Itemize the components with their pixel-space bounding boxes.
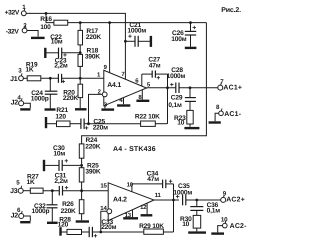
pin 13 ground [123, 210, 138, 219]
svg-text:12: 12 [140, 204, 147, 211]
svg-text:10: 10 [221, 216, 228, 223]
terminal 10 AC2- [221, 216, 247, 230]
svg-text:1000p: 1000p [31, 95, 49, 102]
node pin15 [80, 189, 83, 192]
node rail R17 [79, 21, 82, 24]
svg-text:AC1+: AC1+ [223, 84, 242, 91]
ground J2b [20, 221, 30, 223]
ground R23 [184, 127, 199, 129]
svg-text:Рис.2.: Рис.2. [221, 7, 241, 14]
node C24 tap [49, 77, 52, 80]
svg-text:2,2м: 2,2м [54, 63, 68, 70]
terminal 8 AC1- [216, 104, 242, 118]
ground J2 [20, 108, 30, 110]
terminal 9 AC2+ [221, 191, 245, 204]
node output C34 [172, 199, 175, 202]
pin 4 ground [117, 97, 130, 106]
resistor R21 [55, 107, 81, 127]
node zobel ch1 [189, 86, 192, 89]
label A4 STK436 [113, 146, 156, 153]
resistor R19 [25, 62, 40, 81]
wire filtered rail [68, 22, 207, 24]
resistor R24 [79, 137, 100, 168]
wire pin14 to fb node [101, 211, 107, 232]
svg-text:390K: 390K [85, 169, 100, 176]
node zobel ch2 [195, 199, 198, 202]
pin 9 riser [104, 23, 110, 73]
capacitor C26 [171, 23, 196, 47]
ground bar R28 [61, 227, 68, 236]
svg-text:220K: 220K [85, 143, 100, 150]
pin 8 ground [136, 90, 149, 101]
op-amp A4.2 [108, 183, 154, 221]
ground R20 [75, 108, 87, 110]
resistor R23 [174, 101, 193, 127]
capacitor C21 [125, 22, 150, 47]
svg-text:10: 10 [182, 221, 189, 228]
wire J3 [23, 190, 30, 192]
svg-text:47м: 47м [149, 62, 161, 69]
wire +32V [26, 12, 46, 14]
wire R16 left [46, 13, 54, 22]
terminal 6 J2b [11, 207, 24, 219]
wire rail down and across [82, 23, 207, 144]
resistor R18 [78, 47, 100, 78]
svg-text:1000p: 1000p [32, 208, 50, 215]
ground bar R21 [46, 117, 57, 128]
ground R26 [76, 220, 89, 222]
svg-text:+32V: +32V [5, 9, 20, 16]
terminal 4 J2 [11, 94, 24, 106]
wire C31 to pin15 [63, 190, 109, 192]
wire R29 riser [173, 200, 175, 232]
svg-text:13: 13 [125, 212, 132, 219]
svg-text:J2: J2 [11, 100, 19, 107]
node +32V junction [45, 12, 48, 15]
node fb ch1 [87, 122, 90, 125]
pin 10 wire [127, 181, 163, 192]
capacitor C33 [89, 219, 116, 237]
ground R30 [188, 231, 206, 233]
node C21 tap [124, 40, 127, 43]
node rail C26 [189, 21, 192, 24]
node output C27 [166, 86, 169, 89]
svg-text:J3: J3 [10, 188, 18, 195]
pin 15 label [100, 183, 107, 190]
svg-text:11: 11 [155, 192, 162, 199]
ground C32 [47, 222, 58, 224]
svg-text:390K: 390K [85, 53, 100, 60]
svg-text:0,1м: 0,1м [168, 102, 182, 109]
svg-text:47м: 47м [147, 176, 159, 183]
capacitor C22 [45, 34, 80, 58]
node bias mid ch1 [79, 51, 82, 54]
wire R19 to C23 [41, 77, 59, 79]
svg-text:A4.1: A4.1 [107, 82, 121, 89]
pin 3 ground [101, 102, 114, 110]
svg-text:120: 120 [58, 221, 69, 228]
pin 7 label [121, 71, 125, 78]
capacitor C28 [167, 67, 218, 93]
resistor R16 [40, 16, 68, 31]
terminal 1 +32V [5, 4, 27, 16]
capacitor C23 [54, 57, 68, 83]
svg-text:220м: 220м [101, 224, 116, 231]
svg-text:0,1м: 0,1м [207, 208, 221, 215]
pin 2 bubble [98, 88, 108, 97]
svg-text:2,2м: 2,2м [54, 178, 68, 185]
node C32 tap [51, 189, 54, 192]
capacitor C24 [31, 78, 58, 108]
capacitor C25 [81, 118, 108, 131]
svg-text:A4.2: A4.2 [113, 197, 127, 204]
svg-text:220K: 220K [63, 95, 78, 102]
wire -32V [27, 31, 38, 37]
capacitor C34 [147, 170, 174, 200]
terminal 3 J1 [10, 67, 23, 83]
resistor R27 [27, 174, 44, 194]
node pin1 [79, 77, 82, 80]
resistor R17 [78, 23, 101, 45]
wire +32V rail to pin7 [46, 13, 125, 79]
wire R22 riser [167, 88, 169, 124]
svg-text:R22 10K: R22 10K [135, 114, 160, 121]
wire J2 [24, 103, 31, 108]
svg-text:220K: 220K [86, 34, 101, 41]
resistor R28 [58, 216, 90, 234]
svg-text:220м: 220м [93, 124, 108, 131]
pin 1 label [97, 71, 101, 78]
svg-text:J2: J2 [11, 212, 19, 219]
svg-text:-32V: -32V [6, 29, 20, 36]
ground C24 [45, 108, 56, 110]
svg-text:J1: J1 [10, 76, 18, 83]
capacitor C36 [190, 200, 220, 215]
svg-text:A4 - STK436: A4 - STK436 [113, 146, 156, 153]
capacitor C31 [54, 172, 68, 195]
svg-text:AC2+: AC2+ [226, 196, 245, 203]
ground C26 [185, 47, 197, 49]
resistor R22 [89, 114, 168, 127]
ground -32V [31, 37, 45, 39]
svg-text:1000м: 1000м [127, 28, 146, 35]
resistor R20 [63, 78, 83, 108]
svg-text:10: 10 [127, 181, 134, 188]
svg-text:220K: 220K [61, 208, 76, 215]
capacitor C30 [44, 145, 82, 171]
wire C23 to pin1 [62, 77, 104, 79]
svg-text:100: 100 [40, 24, 51, 31]
wire R17-R18 [79, 45, 81, 55]
svg-text:15: 15 [100, 183, 107, 190]
op-amp A4.1 [104, 70, 147, 106]
resistor R30 [180, 210, 201, 231]
terminal 5 J3 [10, 180, 23, 195]
resistor R25 [79, 162, 101, 190]
wire AC2- ground [211, 226, 224, 234]
pin 12 ground [140, 203, 152, 215]
svg-text:R16: R16 [40, 16, 52, 23]
wire R27 to C31 [43, 190, 59, 192]
wire J1 [23, 77, 27, 79]
terminal 2 -32V [6, 23, 27, 36]
figure title [221, 7, 241, 14]
svg-text:120: 120 [55, 114, 66, 121]
resistor R26 [61, 191, 84, 221]
svg-text:10м: 10м [53, 150, 65, 157]
wire pin2 to fb node [89, 94, 103, 123]
svg-text:10м: 10м [51, 39, 63, 46]
resistor R29 [101, 223, 174, 234]
pin 14 bubble [100, 205, 111, 214]
capacitor C35 [173, 183, 220, 206]
svg-text:10: 10 [177, 120, 184, 127]
capacitor C32 [32, 191, 58, 222]
capacitor C27 [135, 57, 167, 89]
svg-text:100м: 100м [171, 36, 186, 43]
capacitor C29 [168, 88, 196, 109]
svg-text:1K: 1K [25, 67, 33, 74]
svg-text:C29: C29 [171, 94, 183, 101]
node bias mid ch2 [80, 164, 83, 167]
svg-text:1000м: 1000м [173, 190, 192, 197]
wire output ch2 [154, 192, 179, 200]
svg-text:R29 10K: R29 10K [139, 223, 164, 230]
svg-text:1K: 1K [27, 179, 35, 186]
terminal 7 AC1+ [218, 78, 242, 91]
wire J2b [24, 216, 31, 221]
svg-text:1000м: 1000м [167, 73, 186, 80]
node rail pin9 [108, 21, 111, 24]
wire output ch1 [147, 87, 176, 89]
svg-text:AC1-: AC1- [224, 111, 242, 118]
svg-text:AC2-: AC2- [230, 223, 248, 230]
node fb ch2 [99, 231, 102, 234]
wire AC1- ground [209, 113, 221, 122]
